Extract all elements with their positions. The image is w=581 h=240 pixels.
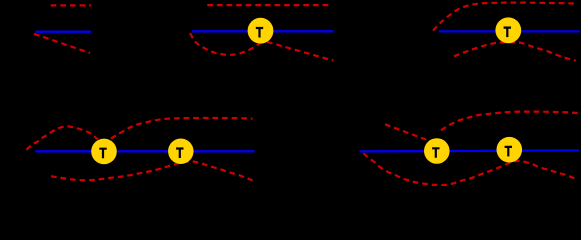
label T on protein P4 right — [176, 147, 183, 158]
red dashed left arc P4 — [27, 126, 99, 149]
wire: blue DNA segment P3 — [439, 30, 580, 32]
red dashed bottom wave P4 — [51, 161, 253, 180]
node T protein P4 left — [91, 139, 117, 165]
red dashed bottom wave P5 — [364, 153, 578, 185]
red dashed long top arc P5 — [441, 112, 579, 131]
red dashed diagonal upper-left P5 — [385, 124, 427, 140]
wire: blue DNA segment P1 — [36, 31, 92, 33]
label T on protein P5 left — [432, 147, 439, 158]
node T protein P5 right — [497, 137, 523, 163]
node T protein P2 — [248, 18, 274, 44]
node T protein P4 right — [168, 139, 194, 165]
label T on protein P2 — [256, 27, 263, 38]
red dashed arc below P3 — [454, 42, 576, 60]
label T on protein P3 — [504, 27, 511, 38]
label T on protein P4 left — [99, 148, 106, 159]
label T on protein P5 right — [505, 146, 512, 157]
red dashed diagonal below P1 — [34, 34, 90, 53]
red dashed line above P1 — [51, 4, 91, 6]
wire: blue DNA segment P5 — [360, 150, 579, 151]
red dashed arc above P3 — [433, 3, 576, 31]
node T protein P3 — [495, 17, 521, 43]
red dashed diagonal right P2 — [267, 42, 333, 61]
red dashed long top arc P4 — [111, 118, 253, 139]
red dashed dip curve below P2 — [190, 33, 260, 55]
wire: blue DNA segment P2 — [192, 30, 334, 32]
node T protein P5 left — [424, 138, 450, 164]
red dashed line above P2 — [207, 4, 330, 6]
wire: blue DNA segment P4 — [35, 150, 254, 152]
